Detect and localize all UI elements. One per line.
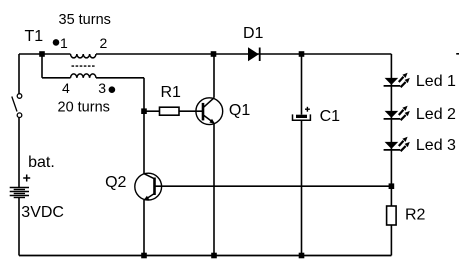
- wire C1 top: [301, 54, 303, 115]
- switch S1 top contact: [17, 94, 22, 99]
- transistor Q2 body: [135, 173, 162, 200]
- svg-text:D1: D1: [243, 25, 264, 42]
- svg-text:R1: R1: [161, 84, 182, 101]
- wire R1 to Q1 base: [179, 110, 203, 112]
- junction Q2 emitter bottom: [141, 253, 147, 259]
- wire C1 bottom: [301, 121, 303, 256]
- wire battery to bottom rail: [18, 198, 20, 256]
- wire T1 primary to secondary link: [41, 54, 43, 78]
- wire switch feed: [18, 54, 20, 94]
- transistor Q2 emitter: [146, 194, 154, 199]
- battery BT1 plates: [10, 188, 29, 198]
- transistor Q2 collector: [144, 174, 154, 179]
- phase dot pin 3: [109, 86, 116, 93]
- phase dot pin 1: [53, 39, 60, 46]
- junction R1 node: [141, 108, 147, 114]
- svg-text:bat.: bat.: [28, 154, 55, 171]
- capacitor C1 positive plate: [296, 115, 307, 118]
- svg-text:Led 2: Led 2: [416, 106, 456, 123]
- transformer T1 primary winding 35 turns: [71, 54, 96, 58]
- svg-text:Q1: Q1: [229, 102, 250, 119]
- transistor Q2 emitter arrow: [143, 196, 149, 201]
- svg-text:Led 3: Led 3: [416, 137, 456, 154]
- wire LED chain vertical: [390, 54, 392, 256]
- resistor R2: [387, 206, 397, 225]
- svg-text:20 turns: 20 turns: [58, 100, 110, 116]
- resistor R1: [160, 107, 180, 115]
- transistor Q1 body: [196, 98, 223, 125]
- svg-text:4: 4: [62, 80, 70, 96]
- capacitor C1 plus sign: [305, 107, 310, 112]
- wire top rail left segment: [19, 53, 71, 55]
- junction Q1 emitter bottom: [211, 253, 217, 259]
- svg-text:1: 1: [60, 35, 68, 51]
- wire Q2 base to LED node: [155, 185, 392, 187]
- svg-text:R2: R2: [405, 207, 426, 224]
- transistor Q1 emitter: [204, 115, 213, 122]
- wire bottom rail: [19, 255, 391, 257]
- junction LED R2 node: [389, 183, 395, 189]
- capacitor C1 negative plate: [293, 114, 311, 120]
- diode D1: [248, 47, 259, 61]
- wire top rail stub at right edge: [456, 53, 459, 55]
- transistor Q1 collector: [204, 98, 214, 107]
- wire top rail to right corner: [96, 53, 391, 55]
- transistor Q1 base bar: [202, 103, 205, 121]
- junction Q1 collector rail: [211, 51, 217, 57]
- junction C1 bottom: [299, 253, 305, 259]
- switch S1 bottom contact: [17, 113, 22, 118]
- svg-text:T1: T1: [25, 28, 44, 45]
- wire secondary right lead: [96, 77, 144, 79]
- junction C1 rail: [299, 51, 305, 57]
- svg-text:C1: C1: [320, 108, 341, 125]
- wire Q2 emitter down: [143, 200, 145, 256]
- transformer T1 secondary winding 20 turns: [71, 74, 96, 78]
- wire secondary left lead: [42, 77, 71, 79]
- wire Q1 collector up: [213, 54, 215, 98]
- svg-text:35 turns: 35 turns: [59, 12, 111, 28]
- svg-text:Q2: Q2: [105, 174, 126, 191]
- transistor Q2 base bar: [153, 178, 156, 196]
- battery plus sign: [23, 175, 30, 182]
- wire secondary down to R1 node: [143, 78, 145, 174]
- LED Led 3: [384, 137, 410, 152]
- transformer T1 core: [72, 65, 95, 67]
- junction T1 top: [39, 51, 45, 57]
- LED Led 2: [384, 106, 410, 121]
- wire switch to battery: [18, 118, 20, 187]
- svg-text:2: 2: [100, 35, 108, 51]
- diode D1 cathode bar: [259, 48, 261, 62]
- wire Q1 emitter down: [213, 124, 215, 256]
- svg-text:3: 3: [98, 80, 106, 96]
- wire R1 left lead: [144, 110, 160, 112]
- svg-text:Led 1: Led 1: [416, 73, 456, 90]
- svg-text:3VDC: 3VDC: [21, 204, 64, 221]
- transistor Q1 emitter arrow: [209, 119, 215, 124]
- switch S1 lever: [12, 97, 17, 112]
- LED Led 1: [384, 73, 410, 88]
